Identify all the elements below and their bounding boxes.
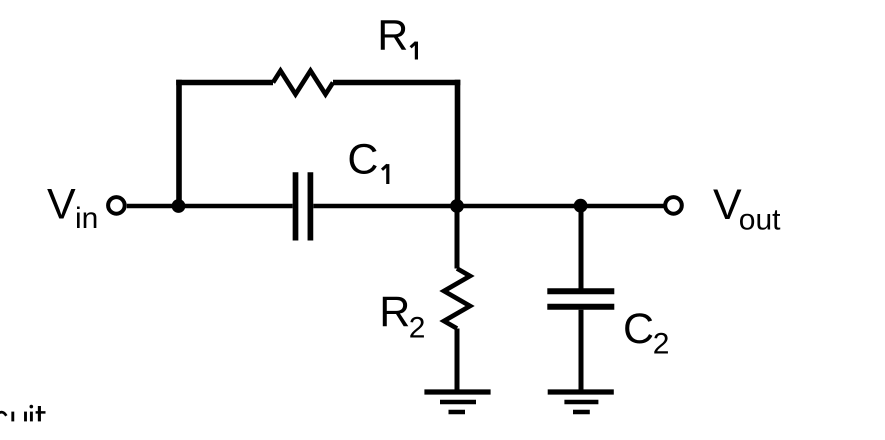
label R2: [379, 288, 425, 345]
wire node A up to R1 loop: [176, 80, 182, 208]
terminal Vout: [665, 197, 682, 214]
label Vin: [47, 181, 98, 235]
terminal Vin: [108, 197, 125, 214]
capacitor C2: [547, 291, 614, 307]
label Vout: [713, 181, 781, 237]
wire node C to Vout terminal: [581, 204, 664, 209]
resistor R1: [273, 71, 333, 95]
resistor R2: [444, 269, 470, 329]
wire Vin to node A: [127, 204, 178, 209]
label C2: [623, 305, 669, 360]
junction node A: [172, 199, 186, 213]
wire C1 to node B: [313, 204, 457, 209]
wire top right segment: [333, 80, 460, 86]
svg-text:R: R: [379, 288, 410, 336]
wire node C down to C2: [579, 206, 584, 289]
ground under R2: [424, 392, 490, 412]
svg-text:2: 2: [409, 312, 426, 345]
wire R2 to ground: [455, 329, 460, 393]
wire C2 to ground: [579, 310, 584, 392]
svg-text:in: in: [75, 202, 98, 235]
capacitor C1: [296, 172, 311, 240]
svg-text:C: C: [347, 135, 378, 183]
wire top left segment: [176, 80, 273, 86]
svg-text:2: 2: [653, 327, 670, 360]
wire node B to node C: [457, 204, 581, 209]
ground under C2: [548, 392, 614, 412]
svg-text:R: R: [377, 12, 408, 60]
label R1: [377, 12, 416, 60]
svg-text:out: out: [739, 204, 781, 237]
wire R1 loop right vertical down to node B: [455, 80, 461, 206]
label C1: [347, 135, 387, 184]
junction node B: [450, 199, 464, 213]
junction node C: [574, 199, 588, 213]
wire node A to C1: [179, 204, 293, 209]
svg-text:V: V: [713, 181, 742, 229]
svg-text:C: C: [623, 305, 654, 353]
svg-text:V: V: [47, 181, 76, 229]
caption fragment "rcuit": [0, 405, 46, 422]
wire node B down to R2: [455, 206, 460, 269]
